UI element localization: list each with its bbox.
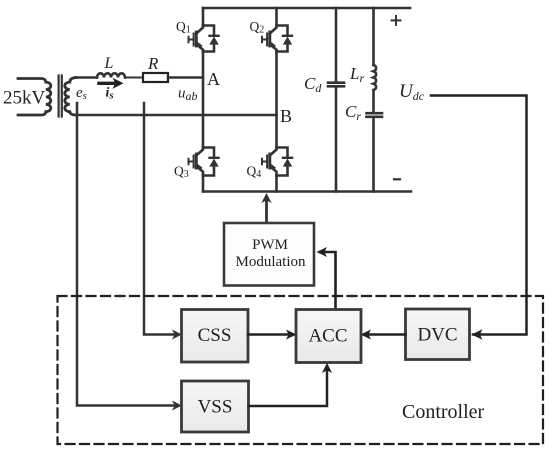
- svg-text:Cr: Cr: [345, 102, 361, 123]
- capacitor Cr: [367, 113, 383, 117]
- arrowhead into ACC right: [361, 330, 372, 340]
- block CSS: [182, 310, 249, 363]
- wire: top DC rail: [203, 7, 410, 10]
- svg-text:A: A: [207, 69, 220, 89]
- block DVC: [406, 309, 470, 360]
- wire: CSS to ACC: [248, 333, 292, 336]
- wire: sense tap to VSS (x=77): [77, 103, 178, 406]
- svg-text:Q2: Q2: [250, 19, 265, 36]
- wire: R to node A: [168, 76, 203, 79]
- svg-text:R: R: [147, 54, 159, 73]
- dashed controller box: [58, 296, 544, 444]
- svg-text:uab: uab: [178, 86, 198, 104]
- svg-text:Q3: Q3: [174, 164, 189, 181]
- svg-text:VSS: VSS: [198, 397, 233, 418]
- label -: [394, 178, 400, 180]
- block VSS: [182, 381, 249, 432]
- wire: L to R: [125, 77, 143, 79]
- inductor L: [97, 73, 125, 77]
- IGBT Q1: [189, 26, 219, 52]
- wire: sense tap to CSS (x=144): [144, 103, 178, 335]
- svg-text:Udc: Udc: [399, 81, 425, 103]
- wire: left bridge leg: [202, 8, 205, 192]
- svg-text:Cd: Cd: [304, 74, 322, 95]
- wire: Lr to Cr: [372, 90, 375, 192]
- wire: right bridge leg: [275, 8, 278, 192]
- block ACC: [296, 310, 361, 363]
- arrowhead into ACC bottom: [322, 363, 332, 373]
- svg-text:Controller: Controller: [402, 401, 485, 423]
- IGBT Q3: [189, 148, 219, 176]
- svg-text:DVC: DVC: [417, 325, 457, 346]
- arrowhead into CSS: [172, 330, 182, 340]
- svg-text:Q1: Q1: [176, 19, 191, 36]
- transformer secondary winding: [65, 78, 76, 116]
- wire: bottom DC rail: [203, 190, 411, 193]
- capacitor Cd: [328, 83, 344, 87]
- svg-text:25kV: 25kV: [3, 88, 46, 109]
- wire: AC bottom wire from secondary to node B: [75, 114, 277, 117]
- wire: ACC to PWM feedback: [320, 252, 336, 310]
- svg-text:CSS: CSS: [198, 325, 232, 346]
- arrowhead into PWM: [317, 247, 328, 257]
- svg-text:L: L: [104, 55, 114, 72]
- svg-text:Q4: Q4: [247, 164, 262, 181]
- svg-text:Modulation: Modulation: [236, 254, 306, 270]
- arrow i_s: [99, 82, 114, 85]
- arrowhead into DVC: [472, 329, 483, 339]
- IGBT Q2: [262, 26, 292, 52]
- svg-text:B: B: [280, 106, 292, 126]
- svg-text:ACC: ACC: [308, 326, 347, 347]
- wire: DVC to ACC: [365, 333, 406, 336]
- wire: Udc feedback to DVC: [431, 96, 527, 335]
- svg-text:Lr: Lr: [349, 64, 364, 85]
- svg-text:is: is: [106, 86, 114, 102]
- transformer core: [59, 76, 62, 117]
- wire: VSS to ACC bottom: [249, 366, 328, 406]
- arrowhead into ACC left: [286, 330, 297, 340]
- wire: AC top wire from secondary to L: [75, 76, 97, 79]
- arrowhead into VSS: [172, 401, 182, 411]
- svg-text:PWM: PWM: [252, 237, 288, 253]
- block PWM Modulation: [224, 223, 314, 286]
- inductor Lr: [374, 65, 377, 90]
- arrow PWM to bridge: [265, 198, 268, 223]
- resistor R: [143, 73, 168, 82]
- wire: Cd leg: [335, 8, 338, 192]
- IGBT Q4: [262, 148, 292, 176]
- svg-text:es: es: [76, 85, 87, 102]
- label +: [392, 16, 401, 25]
- wire: Lr/Cr leg top: [372, 8, 375, 65]
- transformer T primary winding: [18, 79, 51, 116]
